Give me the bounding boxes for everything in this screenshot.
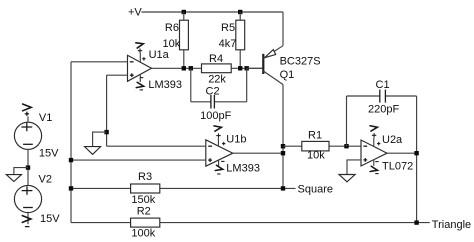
wire +V rail: [141, 11, 283, 13]
wire feedback vertical: [70, 62, 72, 223]
op-amp U1b: [206, 134, 260, 175]
svg-text:U2a: U2a: [382, 134, 403, 146]
junction dot rail/R6: [182, 10, 186, 14]
wire U1a + down to U1b - row: [106, 75, 108, 146]
wire R3 row: [71, 187, 296, 189]
wire R2 row / triangle rail: [71, 222, 430, 224]
U1b V- pin: [215, 160, 224, 174]
U2a V- pin: [370, 160, 379, 174]
junction dot A/C2 right: [245, 66, 249, 70]
wire U1b - input: [107, 145, 206, 147]
wire gnd1 branch: [14, 168, 28, 175]
voltage source V2: [14, 173, 60, 226]
svg-text:10k: 10k: [307, 149, 325, 161]
ground gnd1: [6, 175, 21, 182]
svg-text:R1: R1: [308, 130, 322, 142]
capacitor C2: [191, 68, 247, 122]
junction dot gnd branch: [104, 130, 108, 134]
U1b V+ pin: [214, 125, 225, 146]
junction dot V1V2/gnd: [26, 165, 30, 169]
U2a V+ pin: [370, 125, 380, 147]
svg-text:LM393: LM393: [226, 163, 260, 175]
wire U1a + input: [107, 74, 128, 76]
svg-text:4k7: 4k7: [219, 38, 237, 50]
transistor Q1: [247, 12, 321, 85]
ground gnd3: [339, 175, 355, 182]
U1a V- pin: [136, 75, 144, 90]
junction dot rail/C1 branch: [414, 220, 418, 224]
svg-text:220pF: 220pF: [368, 103, 399, 115]
U1a V+ pin: [136, 41, 146, 62]
junction dot A/R6: [182, 66, 186, 70]
wire Q1 collector vertical: [282, 85, 284, 189]
wire U2a + to ground: [347, 160, 361, 175]
junction dot U2a out/C1: [414, 151, 418, 155]
svg-text:C1: C1: [376, 79, 390, 91]
op-amp U2a: [361, 134, 413, 173]
svg-text:150k: 150k: [131, 194, 155, 206]
svg-text:22k: 22k: [208, 74, 226, 86]
resistor R5: [219, 12, 245, 68]
junction dot A/C2 left: [189, 66, 193, 70]
capacitor C1: [347, 79, 417, 223]
junction dot col/R1: [281, 144, 285, 148]
svg-text:Square: Square: [298, 184, 333, 196]
svg-text:U1b: U1b: [226, 134, 246, 146]
resistor R2: [131, 206, 160, 240]
resistor R3: [131, 171, 160, 206]
wire U2a output: [387, 152, 417, 154]
voltage source V1: [14, 104, 59, 159]
wire U1a output row A: [152, 67, 263, 69]
junction dot R3/Square: [281, 186, 285, 190]
svg-text:R5: R5: [221, 22, 235, 34]
svg-text:BC327S: BC327S: [280, 55, 321, 67]
wire U1a inverting input: [71, 61, 128, 63]
wire U1b output: [233, 152, 283, 154]
svg-text:R4: R4: [209, 53, 223, 65]
junction dot A/R5: [238, 66, 242, 70]
junction dot fb/R3: [69, 186, 73, 190]
svg-text:V1: V1: [39, 112, 52, 124]
op-amp U1a: [128, 49, 183, 91]
wire U1b + input: [71, 159, 206, 161]
svg-text:TL072: TL072: [382, 160, 413, 172]
wire V1-V2: [27, 149, 29, 185]
svg-text:U1a: U1a: [149, 49, 170, 61]
svg-text:100k: 100k: [131, 227, 155, 239]
svg-text:Q1: Q1: [280, 69, 295, 81]
svg-text:R6: R6: [165, 22, 179, 34]
svg-text:R3: R3: [138, 171, 152, 183]
resistor R4: [202, 53, 232, 86]
junction dot col/U1b out: [281, 151, 285, 155]
resistor R1: [283, 130, 361, 162]
svg-text:V2: V2: [39, 173, 52, 185]
junction dot rail/R5: [238, 10, 242, 14]
svg-text:100pF: 100pF: [200, 110, 231, 122]
ground gnd2: [85, 147, 101, 155]
svg-text:C2: C2: [206, 86, 220, 98]
junction dot R1/C1: [344, 144, 348, 148]
resistor R6: [163, 12, 189, 68]
svg-text:Triangle: Triangle: [432, 219, 471, 231]
svg-text:+V: +V: [128, 7, 142, 19]
svg-text:R2: R2: [137, 206, 151, 218]
svg-text:LM393: LM393: [148, 79, 182, 91]
junction dot fb/U1b+: [69, 158, 73, 162]
wire gnd2 branch: [93, 132, 107, 147]
svg-text:10k: 10k: [163, 38, 181, 50]
svg-text:15V: 15V: [40, 213, 60, 225]
svg-text:15V: 15V: [39, 147, 59, 159]
